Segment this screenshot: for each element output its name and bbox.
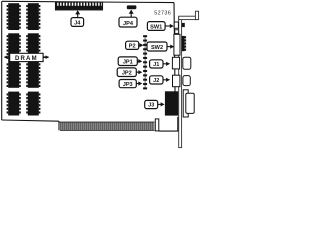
DB video connector xyxy=(183,90,194,117)
card edge connector fingers xyxy=(59,122,155,130)
JP1 label callout xyxy=(118,57,142,66)
connector end tab xyxy=(155,119,159,131)
J3 label callout xyxy=(145,100,165,108)
svg-text:DRAM: DRAM xyxy=(15,56,38,62)
IC chip (J3 target) xyxy=(165,91,178,115)
DRAM chip U3 xyxy=(7,33,21,61)
svg-text:P2: P2 xyxy=(129,44,136,50)
pin header strip xyxy=(143,35,147,89)
DRAM chip U1 xyxy=(7,3,21,30)
switch SW2 component xyxy=(174,34,186,55)
J1 label callout xyxy=(150,60,171,68)
JP2 label callout xyxy=(117,68,142,77)
DRAM chip U7 xyxy=(7,92,21,116)
jack J1 component xyxy=(172,57,190,69)
svg-text:JP4: JP4 xyxy=(123,21,134,27)
DRAM label callout xyxy=(4,53,49,62)
svg-text:JP1: JP1 xyxy=(123,60,133,66)
svg-text:J2: J2 xyxy=(153,78,159,84)
DRAM chip U4 xyxy=(26,33,40,61)
switch SW1 component xyxy=(174,22,185,28)
svg-text:JP3: JP3 xyxy=(123,82,133,88)
svg-text:SW2: SW2 xyxy=(151,45,163,51)
J4 label callout xyxy=(71,10,84,26)
mounting bracket xyxy=(179,11,199,147)
card PCB outline xyxy=(2,1,178,131)
DRAM chip U2 xyxy=(26,3,40,30)
svg-text:J3: J3 xyxy=(148,103,154,109)
svg-text:JP2: JP2 xyxy=(122,71,132,77)
connector J4 (socket strip) xyxy=(55,2,102,10)
JP3 label callout xyxy=(119,80,142,88)
SW1 label callout xyxy=(147,22,173,31)
J2 label callout xyxy=(150,76,171,84)
svg-text:J1: J1 xyxy=(153,62,159,68)
connector stub xyxy=(175,30,179,34)
jumper JP4 component xyxy=(127,5,137,9)
DRAM chip U6 xyxy=(26,62,40,88)
P2 label callout xyxy=(126,41,144,49)
JP4 label callout xyxy=(119,10,137,28)
DRAM chip U8 xyxy=(26,92,40,116)
SW2 label callout xyxy=(147,42,174,51)
jack J2 component xyxy=(173,75,191,87)
svg-text:J4: J4 xyxy=(74,21,81,27)
svg-text:52736: 52736 xyxy=(154,11,171,17)
DRAM chip U5 xyxy=(7,62,21,88)
svg-text:SW1: SW1 xyxy=(150,25,162,31)
